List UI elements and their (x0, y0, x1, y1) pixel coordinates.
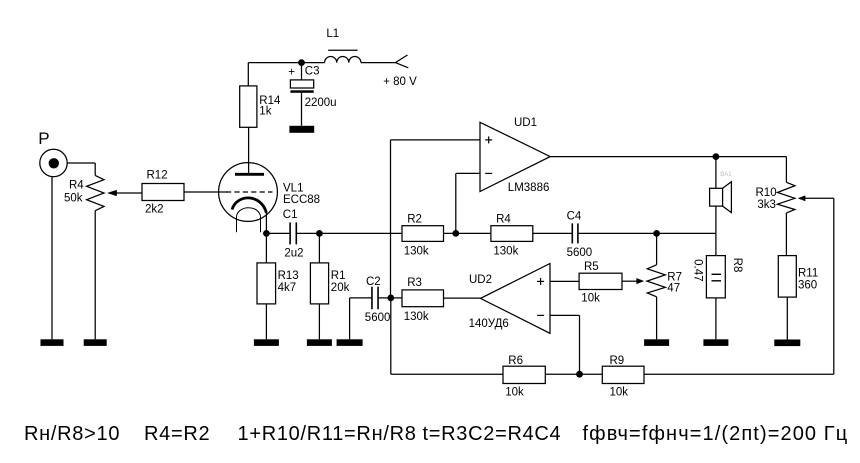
svg-text:R6: R6 (508, 355, 523, 367)
svg-text:47: 47 (667, 283, 680, 295)
svg-text:+: + (288, 67, 295, 79)
svg-text:130k: 130k (404, 311, 429, 323)
svg-text:R1: R1 (331, 270, 346, 282)
svg-text:t=R3C2=R4C4: t=R3C2=R4C4 (423, 423, 562, 445)
svg-text:20k: 20k (331, 282, 350, 294)
svg-text:Rн/R8>10: Rн/R8>10 (24, 423, 120, 445)
svg-text:360: 360 (798, 280, 817, 292)
svg-text:R2: R2 (407, 213, 422, 225)
svg-text:R13: R13 (278, 270, 299, 282)
svg-text:5600: 5600 (567, 247, 593, 259)
svg-text:C2: C2 (366, 276, 381, 288)
svg-text:C1: C1 (283, 209, 298, 221)
svg-text:3k3: 3k3 (757, 199, 776, 211)
svg-text:2k2: 2k2 (145, 203, 164, 215)
svg-text:R4: R4 (69, 179, 84, 191)
svg-text:0.47: 0.47 (692, 259, 704, 281)
svg-text:L1: L1 (326, 28, 339, 40)
svg-text:R8: R8 (731, 258, 743, 273)
svg-text:R3: R3 (407, 277, 422, 289)
svg-text:C3: C3 (305, 66, 320, 78)
svg-text:R4=R2: R4=R2 (144, 423, 210, 445)
svg-text:R5: R5 (584, 261, 599, 273)
svg-text:10k: 10k (581, 293, 600, 305)
svg-text:BA1: BA1 (720, 172, 732, 178)
svg-text:C4: C4 (567, 211, 582, 223)
svg-text:130k: 130k (404, 245, 429, 257)
svg-text:P: P (38, 129, 49, 148)
svg-text:2u2: 2u2 (284, 247, 303, 259)
svg-text:R12: R12 (147, 170, 168, 182)
svg-text:1k: 1k (259, 106, 271, 118)
svg-text:4k7: 4k7 (278, 282, 297, 294)
svg-text:UD1: UD1 (514, 117, 537, 129)
svg-text:130k: 130k (493, 245, 518, 257)
svg-text:UD2: UD2 (469, 274, 492, 286)
svg-text:2200u: 2200u (305, 97, 337, 109)
svg-text:VL1: VL1 (283, 183, 303, 195)
svg-text:R10: R10 (756, 187, 777, 199)
svg-text:10k: 10k (505, 386, 524, 398)
svg-text:R9: R9 (610, 355, 625, 367)
svg-text:fфвч=fфнч=1/(2пt)=200 Гц: fфвч=fфнч=1/(2пt)=200 Гц (583, 423, 849, 445)
svg-text:50k: 50k (64, 192, 83, 204)
svg-text:1+R10/R11=Rн/R8: 1+R10/R11=Rн/R8 (238, 423, 417, 445)
svg-text:5600: 5600 (365, 312, 391, 324)
svg-text:+ 80 V: + 80 V (383, 76, 417, 88)
svg-text:140УД6: 140УД6 (469, 318, 509, 330)
svg-text:10k: 10k (610, 386, 629, 398)
svg-text:R11: R11 (798, 267, 818, 279)
svg-text:ECC88: ECC88 (283, 194, 320, 206)
svg-text:R4: R4 (496, 213, 511, 225)
svg-text:LM3886: LM3886 (508, 182, 550, 194)
